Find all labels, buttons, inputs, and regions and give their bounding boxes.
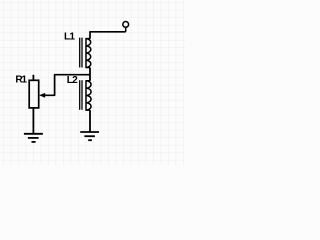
wire: L2 bottom lead to ground <box>89 110 91 132</box>
svg-text:L2: L2 <box>67 75 78 86</box>
svg-text:R1: R1 <box>15 75 27 86</box>
ground (under L2) <box>80 132 99 140</box>
wire: junction to R1 wiper (with corner jog) <box>45 75 91 96</box>
inductor L1 <box>80 38 91 68</box>
resistor R1 (potentiometer body) <box>29 75 39 133</box>
wire: L1 bottom lead through junction to L2 top lead <box>89 68 91 81</box>
potentiometer wiper arrow <box>39 93 45 98</box>
output terminal (open circle) <box>123 22 129 32</box>
wire: L1 top lead to terminal <box>90 32 126 39</box>
svg-text:L1: L1 <box>64 32 75 43</box>
inductor L2 <box>80 80 91 110</box>
ground (under R1) <box>24 134 43 142</box>
